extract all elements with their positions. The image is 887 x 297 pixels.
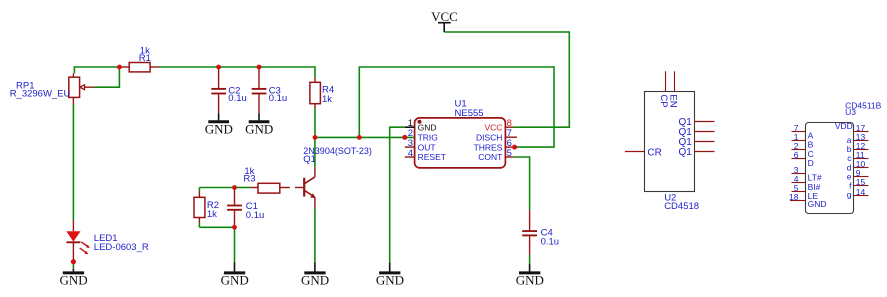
potentiometer RP1 [10, 73, 95, 104]
wire Q1 collector riser [314, 137, 316, 166]
ground under pin1 column [376, 262, 404, 287]
wire R2 bottom stub [198, 223, 200, 227]
svg-text:4: 4 [408, 148, 413, 159]
op-amp U1 NE555 [405, 99, 517, 168]
svg-text:15: 15 [856, 177, 866, 187]
svg-text:1k: 1k [207, 209, 217, 220]
ground under LED1 [60, 269, 88, 288]
junction at LED1 cathode [71, 259, 76, 264]
svg-text:0.1u: 0.1u [541, 237, 560, 248]
svg-text:THRES: THRES [474, 142, 503, 152]
svg-text:GND: GND [376, 273, 404, 288]
junction at C1 bottom [232, 225, 237, 230]
pin 4 RESET [405, 156, 415, 158]
svg-text:U3: U3 [845, 107, 856, 117]
ground under C3 [245, 113, 273, 136]
capacitor C2 [211, 67, 247, 113]
junction at C1 top [232, 185, 237, 190]
pin 18 GND [790, 200, 806, 202]
wire Q1 emitter to ground [314, 208, 316, 262]
wire TRIG row horizontal [315, 136, 415, 138]
wire pin 1 to ground column [390, 127, 405, 262]
svg-text:R1: R1 [139, 53, 151, 64]
transistor Q1 [295, 146, 372, 208]
svg-text:0.1u: 0.1u [246, 210, 264, 221]
svg-text:0.1u: 0.1u [228, 93, 247, 104]
svg-text:Q1: Q1 [678, 147, 692, 158]
pin 8 VCC [505, 126, 513, 128]
pin Q1 b [695, 131, 715, 133]
resistor R1 [119, 45, 159, 72]
wire R2 C1 top link [199, 187, 234, 189]
svg-text:VCC: VCC [431, 9, 458, 24]
svg-text:R3: R3 [243, 173, 255, 184]
svg-text:g: g [847, 190, 852, 200]
svg-text:OUT: OUT [418, 142, 436, 152]
junction at C2 top [216, 65, 221, 70]
wire pot wiper to junction [94, 67, 119, 87]
pin 1 GND [405, 126, 415, 128]
pin 7 DISCH [505, 136, 517, 138]
IC U3 CD4511B [789, 100, 882, 213]
pin 6 D [792, 158, 806, 160]
svg-text:TRIG: TRIG [418, 133, 438, 143]
svg-text:Q1: Q1 [303, 154, 316, 165]
wire C1 junction to R3 [235, 187, 250, 189]
svg-text:GND: GND [245, 121, 273, 136]
pin EN [674, 71, 676, 91]
svg-text:GND: GND [60, 273, 88, 288]
svg-text:DISCH: DISCH [476, 133, 502, 143]
resistor R3 [243, 166, 290, 193]
svg-text:18: 18 [789, 192, 799, 202]
pin 11 c [854, 158, 869, 160]
pin 3 LT# [792, 173, 806, 175]
wire R2 top stub [198, 188, 200, 192]
ground under Q1 [301, 262, 329, 287]
wire LED cathode to ground [72, 262, 74, 269]
wire net-A top rail [74, 67, 119, 73]
svg-text:5: 5 [507, 148, 512, 159]
svg-text:CONT: CONT [478, 152, 502, 162]
junction at pin 2 TRIG [402, 135, 407, 140]
wire pin 5 to C4 [513, 157, 529, 210]
svg-text:VCC: VCC [484, 122, 502, 132]
pin 5 LE [792, 191, 806, 193]
pin 2 C [792, 149, 806, 151]
pin 13 a [854, 140, 869, 142]
pin 14 g [854, 195, 869, 197]
capacitor C1 [227, 188, 264, 228]
wire R1 to R4 corner [160, 67, 316, 78]
svg-text:NE555: NE555 [455, 108, 484, 119]
resistor R4 [310, 78, 334, 109]
LED LED1 [66, 220, 149, 262]
pin 12 b [854, 149, 869, 151]
pin 1 B [792, 140, 806, 142]
resistor R2 [194, 191, 219, 223]
pin 5 CONT [505, 156, 513, 158]
svg-text:6: 6 [794, 150, 799, 160]
pin 4 BI# [792, 182, 806, 184]
wire VCC to pin 8 [444, 32, 569, 127]
svg-text:GND: GND [301, 273, 329, 288]
VCC power symbol [431, 9, 458, 32]
svg-text:CP: CP [658, 94, 669, 107]
pin 3 OUT [405, 146, 415, 148]
capacitor C4 [522, 210, 559, 255]
svg-text:0.1u: 0.1u [269, 93, 288, 104]
svg-text:GND: GND [516, 273, 544, 288]
svg-text:GND: GND [205, 121, 233, 136]
svg-text:D: D [808, 158, 814, 168]
wire R2 C1 bottom link [199, 226, 234, 228]
svg-text:GND: GND [808, 199, 827, 209]
wire C4 bottom to ground [529, 255, 531, 264]
svg-text:LED-0603_R: LED-0603_R [94, 242, 149, 253]
junction at R4 / Q1 collector [313, 135, 318, 140]
svg-text:1k: 1k [322, 94, 332, 105]
svg-text:GND: GND [221, 273, 249, 288]
IC U2 CD4518 [625, 71, 715, 212]
ground under C2 [205, 113, 233, 136]
pin 10 d [854, 167, 869, 169]
svg-text:GND: GND [418, 122, 437, 132]
pin Q1 d [695, 151, 715, 153]
pin Q1 a [695, 121, 715, 123]
pin 7 A [792, 131, 806, 133]
wire R4 bottom to TRIG row [314, 109, 316, 138]
pin 17 VDD [854, 131, 869, 133]
svg-text:EN: EN [668, 94, 679, 107]
pin Q1 c [695, 141, 715, 143]
junction at C3 top [257, 65, 262, 70]
svg-text:R_3296W_EU: R_3296W_EU [10, 89, 71, 100]
pin 9 e [854, 176, 869, 178]
capacitor C3 [252, 67, 288, 113]
junction at THRES riser [357, 135, 362, 140]
pin 6 THRES [505, 146, 514, 148]
pin CR [625, 151, 645, 153]
svg-text:14: 14 [856, 187, 866, 197]
svg-text:CR: CR [647, 148, 661, 159]
pin CP [665, 71, 667, 91]
wire C1 bottom to ground [234, 227, 236, 262]
svg-text:CD4518: CD4518 [664, 201, 699, 212]
wire pot bottom to LED [72, 104, 74, 220]
ground under C4 [516, 264, 544, 288]
pin 15 f [854, 185, 869, 187]
svg-text:RESET: RESET [418, 152, 446, 162]
ground under C1 [221, 262, 249, 287]
svg-text:VDD: VDD [835, 121, 853, 131]
junction at pin 6 THRES [512, 145, 517, 150]
wire net-B riser and THRES feed [359, 67, 554, 147]
junction at RP1 wiper / R1 [117, 65, 122, 70]
